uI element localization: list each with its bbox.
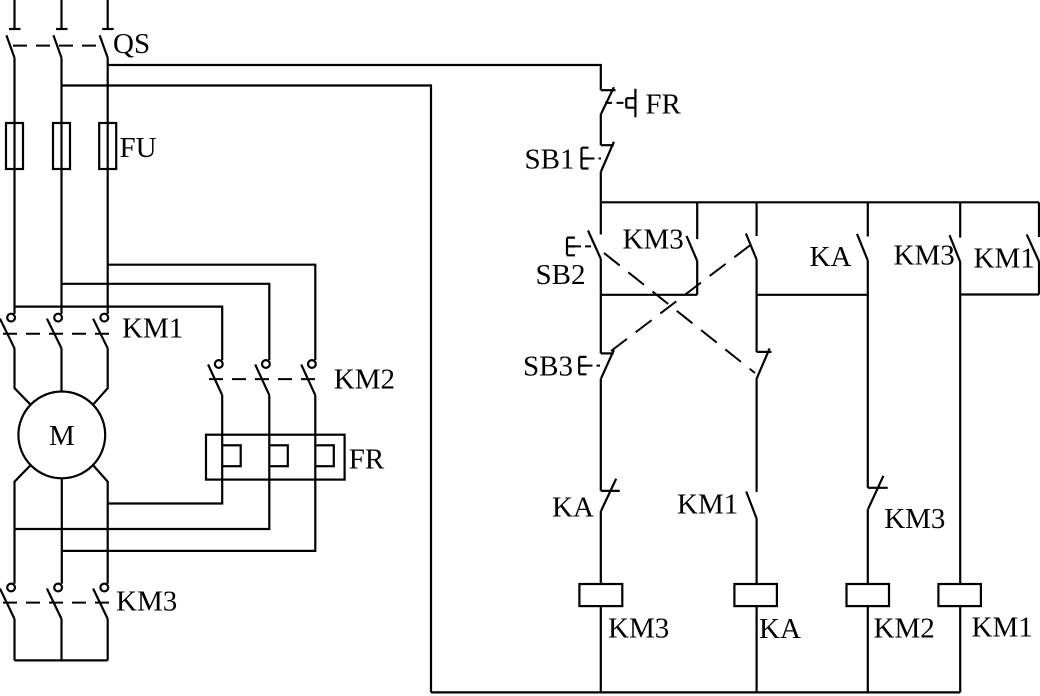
wire KM2 pole3 to FR	[314, 395, 316, 445]
svg-text:KM3: KM3	[894, 240, 955, 272]
wire branch L2 to KM2 pole 2	[62, 284, 270, 360]
control bus top	[601, 201, 1039, 203]
KM1 self-hold NO blade	[1027, 234, 1039, 261]
svg-text:KM1: KM1	[677, 489, 738, 521]
wire phase L1 incoming	[13, 0, 15, 29]
svg-text:KA: KA	[552, 492, 594, 524]
wire KM3 coil to bottom bus	[600, 606, 602, 692]
button SB3 tick	[601, 352, 614, 354]
wire L2 QS to fuse	[60, 58, 62, 123]
wire phase L3 incoming	[107, 0, 109, 29]
terminal tick L3	[102, 28, 114, 30]
wire KM2 pole2 to FR	[268, 395, 270, 445]
coil KM1	[938, 584, 981, 606]
wire node2 to SB2 linked contact	[755, 295, 757, 352]
contactor KM2 pole 3 terminal circle	[308, 360, 316, 368]
KM1 linkage dashed	[3, 333, 110, 335]
wire control feed lower from L2	[62, 86, 432, 693]
wire KM1 coil to bottom bus	[959, 606, 961, 692]
motor M circle	[18, 392, 105, 479]
wire KA coil to bottom bus	[755, 606, 757, 692]
node1 horizontal wire	[601, 294, 697, 296]
motor lead bottom-right	[93, 465, 108, 584]
contactor KM1 pole 1 blade	[0, 319, 15, 349]
node2 horizontal wire	[757, 294, 868, 296]
svg-text:SB1: SB1	[525, 144, 575, 176]
wire KM2 coil to bottom bus	[867, 606, 869, 692]
disconnect switch QS pole 1 blade	[6, 35, 14, 58]
fuse FU pole 1	[6, 123, 23, 169]
contactor KM3 pole 1 blade	[0, 589, 15, 619]
svg-text:KM2: KM2	[874, 613, 935, 645]
svg-text:KM1: KM1	[972, 612, 1033, 644]
KM1 aux NO contact blade	[746, 492, 756, 519]
svg-text:KM2: KM2	[334, 364, 395, 396]
wire L2 fuse to KM1	[60, 169, 62, 314]
KM3 NO contact blade	[950, 235, 961, 262]
bottom bus wire	[431, 691, 960, 693]
wire SB2 to node1	[600, 259, 602, 295]
contactor KM2 pole 2 blade	[255, 365, 269, 396]
relay KA NC contact tick	[601, 490, 620, 492]
wire through heater 3	[314, 466, 316, 479]
svg-text:KA: KA	[759, 613, 801, 645]
svg-text:FR: FR	[645, 89, 681, 121]
wire branch L3 to KM2 pole 3	[108, 265, 316, 361]
contactor KM1 pole 1 terminal circle	[7, 314, 15, 322]
contactor KM3 pole 3 terminal circle	[100, 584, 108, 592]
wire control feed upper from L3	[108, 65, 601, 90]
wire bus to KM3 aux	[696, 202, 698, 239]
terminal tick L1	[9, 28, 21, 30]
contactor KM1 pole 3 blade	[93, 319, 108, 349]
SB2 linked NC blade	[757, 348, 770, 378]
disconnect switch QS pole 3 blade	[100, 35, 108, 58]
wire KM3 pole2 down	[60, 619, 62, 661]
svg-text:SB3: SB3	[523, 350, 573, 382]
contactor KM2 pole 1 blade	[208, 365, 222, 396]
svg-text:KM1: KM1	[974, 243, 1035, 275]
svg-text:KM3: KM3	[884, 503, 945, 535]
wire phase L2 incoming	[60, 0, 62, 29]
start button SB2 blade	[588, 231, 601, 259]
svg-text:KM3: KM3	[608, 613, 669, 645]
wire FR to SB1	[600, 114, 602, 145]
svg-text:KM3: KM3	[116, 586, 177, 618]
wire KM1 pole3 to motor	[93, 348, 108, 404]
SB3 linked NO contact blade	[746, 234, 757, 260]
KM3 linkage dashed	[3, 602, 110, 604]
contactor KM2 pole 1 terminal circle	[215, 360, 223, 368]
wire KM1 aux to KA coil	[755, 519, 757, 585]
FR heater element 3	[315, 445, 334, 466]
svg-text:SB2: SB2	[536, 259, 586, 291]
wire bus to KM3 NO contact	[959, 202, 961, 237]
wire KA NC to KM3 coil	[600, 511, 602, 584]
wire SB3 to KA contact	[600, 379, 602, 491]
wire L1 QS to fuse	[13, 58, 15, 123]
coil KA	[734, 584, 777, 606]
wire through fuse 2	[60, 123, 62, 169]
SB3 actuator E	[579, 357, 586, 374]
svg-text:QS: QS	[113, 28, 150, 60]
wire KM2 pole1 to FR	[221, 395, 223, 445]
wire L3 fuse to KM1	[107, 169, 109, 314]
SB2 actuator dashed link	[575, 245, 594, 247]
KM3 self-hold contact blade	[687, 236, 698, 261]
wire bus to SB3 aux contact	[755, 202, 757, 236]
wire L3 QS to fuse	[107, 58, 109, 123]
wire KM3 pole3 down	[107, 619, 109, 661]
wire KM3 NO to KM1 coil	[959, 262, 961, 584]
svg-text:FR: FR	[349, 444, 385, 476]
SB2 actuator E	[567, 238, 575, 256]
KA NC blade	[601, 479, 616, 511]
stop button SB1 tick	[601, 144, 614, 146]
SB1 actuator E	[582, 148, 589, 169]
wire branch L1 to KM2 pole 1	[15, 307, 223, 361]
SB1 actuator dashed link	[589, 158, 602, 160]
disconnect switch QS pole 2 blade	[53, 35, 61, 58]
contactor KM2 pole 3 blade	[301, 365, 315, 396]
FR NC contact blade	[601, 87, 614, 114]
contactor KM1 pole 3 terminal circle	[100, 314, 108, 322]
KM2 linkage dashed	[209, 378, 317, 380]
coil KM3	[579, 584, 622, 606]
KA NO contact blade	[857, 234, 868, 261]
KM3 NC interlock tick	[868, 487, 888, 489]
terminal tick L2	[56, 28, 68, 30]
wire KA NO to KM3 NC	[867, 261, 869, 488]
SB3 actuator dashed link	[587, 365, 601, 367]
coil KM2	[847, 584, 890, 606]
wire through heater 1	[221, 466, 223, 479]
wire KM1 pole2 to motor	[60, 348, 62, 391]
wire bus to KA NO contact	[867, 202, 869, 236]
thermal relay FR NC contact tick	[601, 89, 616, 91]
motor lead bottom-left	[15, 465, 31, 584]
KM3 shorting bar	[15, 659, 108, 661]
FR heater element 2	[269, 445, 288, 466]
svg-text:KM1: KM1	[122, 313, 183, 345]
wire KM3 aux to node1	[696, 261, 698, 295]
FR trip linkage dashed	[605, 102, 626, 104]
SB3 blade	[601, 350, 614, 379]
svg-text:M: M	[49, 420, 75, 452]
fuse FU pole 2	[53, 123, 70, 169]
svg-text:KM3: KM3	[623, 224, 684, 256]
KM3 NC interlock blade	[868, 476, 883, 509]
wire node1 to SB3	[600, 295, 602, 354]
motor lead bottom-center	[61, 478, 63, 583]
contactor KM3 pole 1 terminal circle	[7, 584, 15, 592]
wire KM3 pole1 down	[13, 619, 15, 661]
svg-text:KA: KA	[810, 241, 852, 273]
wire through fuse 3	[107, 123, 109, 169]
contactor KM1 pole 2 terminal circle	[54, 314, 62, 322]
wire KM1 pole1 to motor	[15, 348, 31, 404]
wire bus to KM1 self-hold	[1038, 202, 1040, 237]
wire motor U2 to KM2 pole2	[15, 480, 270, 529]
wire KM1 self-hold down	[1038, 262, 1040, 295]
wire motor V2 to KM2 pole3	[62, 480, 316, 551]
SB3 to NO mechanical linkage dashed	[611, 246, 750, 352]
wire bus to SB2	[600, 202, 602, 234]
wire SB3 aux to node2	[755, 260, 757, 295]
contactor KM3 pole 3 blade	[93, 589, 108, 619]
SB1 blade	[601, 142, 614, 172]
wire KM3 NC to KM2 coil	[867, 509, 869, 584]
contactor KM3 pole 2 terminal circle	[54, 584, 62, 592]
thermal relay FR box	[206, 435, 345, 480]
wire to KM1 aux contact	[755, 378, 757, 492]
FR trip symbol	[626, 89, 635, 118]
SB2 linked NC contact tick	[757, 351, 772, 353]
fuse FU pole 3	[99, 123, 116, 169]
wire motor W2 to KM2 pole1	[108, 480, 223, 504]
wire through heater 2	[268, 466, 270, 479]
wire SB1 to bus	[600, 172, 602, 203]
contactor KM1 pole 2 blade	[47, 319, 62, 349]
svg-text:FU: FU	[120, 132, 157, 164]
SB2 to NC mechanical linkage dashed	[604, 253, 755, 373]
node3 horizontal wire	[960, 293, 1039, 295]
QS linkage dashed	[13, 45, 101, 47]
contactor KM2 pole 2 terminal circle	[262, 360, 270, 368]
wire L1 fuse to KM1	[13, 169, 15, 314]
contactor KM3 pole 2 blade	[47, 589, 62, 619]
wire through fuse 1	[13, 123, 15, 169]
FR heater element 1	[222, 445, 241, 466]
